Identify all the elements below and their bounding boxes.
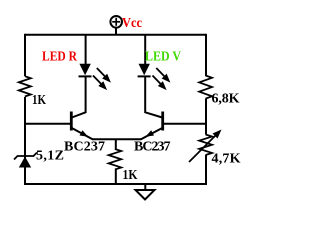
svg-text:1K: 1K [123,168,138,183]
svg-text:1K: 1K [32,93,46,108]
svg-text:LED V: LED V [145,50,181,65]
svg-text:Vcc: Vcc [122,16,142,31]
svg-text:BC237: BC237 [64,140,105,155]
svg-text:LED R: LED R [42,50,78,65]
svg-text:5,1Z: 5,1Z [36,149,64,164]
svg-text:6,8K: 6,8K [212,92,240,107]
svg-text:4,7K: 4,7K [212,152,241,167]
svg-text:BC237: BC237 [134,140,171,155]
